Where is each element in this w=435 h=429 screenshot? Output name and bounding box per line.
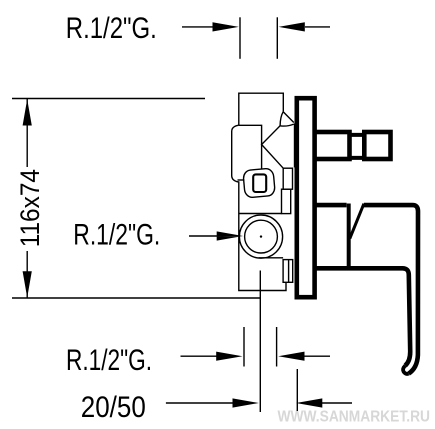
svg-text:R.1/2"G.: R.1/2"G. [66,344,152,377]
svg-text:116x74: 116x74 [15,169,45,247]
svg-text:R.1/2"G.: R.1/2"G. [73,219,160,252]
svg-text:WWW.SANMARKET.RU: WWW.SANMARKET.RU [278,408,431,425]
svg-text:R.1/2"G.: R.1/2"G. [66,12,157,45]
svg-text:20/50: 20/50 [81,391,146,424]
